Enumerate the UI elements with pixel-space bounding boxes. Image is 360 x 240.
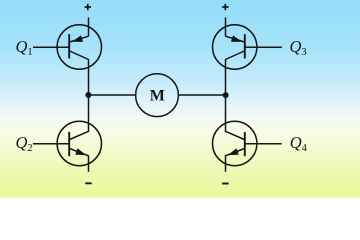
wire Q3 base <box>245 46 282 48</box>
wire + to Q1 emitter <box>88 17 90 36</box>
transistor Q2 <box>57 121 101 165</box>
transistor Q4 <box>213 121 257 165</box>
wire left rail (Q1 collector to Q2 collector) <box>88 59 90 132</box>
wire Q4 base <box>245 143 282 145</box>
power - (left) <box>85 182 91 184</box>
power + (left) <box>85 4 91 10</box>
wire + to Q3 emitter <box>225 17 227 36</box>
wire right rail (Q3 collector to Q4 collector) <box>225 59 227 132</box>
node A junction <box>85 92 91 98</box>
svg-text:M: M <box>150 87 165 104</box>
wire Q1 base <box>33 46 69 48</box>
wire Q2 base <box>33 143 69 145</box>
power + (right) <box>222 4 228 10</box>
power - (right) <box>222 183 228 185</box>
node B junction <box>223 92 229 98</box>
wire Q2 emitter to minus <box>88 156 90 172</box>
transistor Q1 <box>57 25 101 69</box>
motor M <box>136 74 179 117</box>
wire motor to node B <box>178 94 225 96</box>
wire Q4 emitter to minus <box>225 156 227 172</box>
transistor Q3 <box>213 25 257 69</box>
wire node A to motor <box>89 94 137 96</box>
